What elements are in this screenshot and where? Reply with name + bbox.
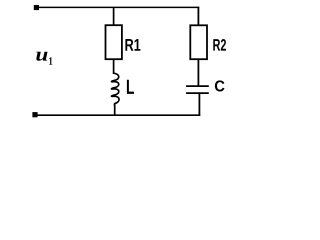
wire top rail [37,6,199,8]
wire R1 top lead [113,7,115,25]
resistor R1 [106,25,122,59]
resistor R2 [190,25,207,59]
wire bottom rail [36,114,200,116]
wire R2 top lead [197,7,199,26]
inductor L [111,73,119,105]
label C [215,80,225,91]
wire R2 to C lead [197,59,199,85]
label R1 [125,39,140,51]
capacitor C bottom plate [186,92,209,94]
wire C bottom lead [198,94,200,116]
terminal (top-left input) [34,5,39,10]
capacitor C top plate [186,85,209,87]
wire R1 to L lead [113,59,115,74]
wire L bottom lead [114,104,116,115]
terminal (bottom-left input) [32,112,37,117]
label L [127,80,134,94]
label R2 [213,39,226,51]
label u1 (source voltage) [36,52,47,61]
